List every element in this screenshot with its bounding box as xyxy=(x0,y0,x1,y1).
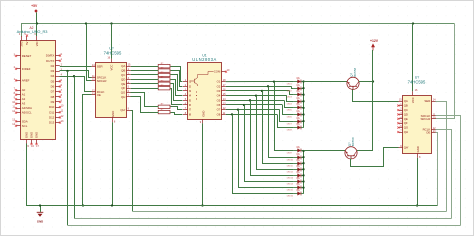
svg-text:QA: QA xyxy=(404,99,408,103)
svg-text:LED15: LED15 xyxy=(287,189,294,191)
LED LED11 xyxy=(287,160,304,168)
svg-text:VIN: VIN xyxy=(35,42,39,47)
svg-text:QD: QD xyxy=(404,112,408,116)
wire ground rail xyxy=(27,205,438,207)
wire +5V rail xyxy=(22,24,455,37)
svg-text:LED1: LED1 xyxy=(287,83,293,85)
svg-text:16: 16 xyxy=(107,56,110,59)
junction bank2 bus row5 xyxy=(302,174,304,176)
wire clock bus line xyxy=(74,218,452,220)
wire O7 jog to LED bank1 row7 xyxy=(280,110,294,122)
svg-text:GND: GND xyxy=(34,132,38,138)
svg-text:6: 6 xyxy=(61,84,63,87)
junction bank2 bus row2 xyxy=(302,156,304,158)
svg-text:QG: QG xyxy=(121,91,126,95)
svg-text:7: 7 xyxy=(128,95,130,98)
LED LED7 xyxy=(287,118,304,126)
wire O2 towards LEDs xyxy=(226,86,292,88)
wire QH'1 daisy chain down xyxy=(131,111,133,212)
transistor Q1 BC558 xyxy=(347,67,359,89)
svg-text:13: 13 xyxy=(223,103,226,106)
svg-text:2: 2 xyxy=(14,66,16,69)
wire D2 to SER1 xyxy=(60,66,92,68)
wire O8 branch to LED bank2 row8 xyxy=(233,115,294,194)
svg-text:O1: O1 xyxy=(217,80,221,84)
LED LED14 xyxy=(287,178,304,186)
svg-text:SDA: SDA xyxy=(22,119,28,123)
svg-text:LED12: LED12 xyxy=(287,171,294,173)
wire O6 towards LEDs xyxy=(226,104,282,106)
junction bank2 bus row1 xyxy=(302,150,304,152)
wire +5V to 74HC595#2 SRCLR xyxy=(436,24,455,119)
svg-text:GND: GND xyxy=(37,219,43,223)
svg-text:13: 13 xyxy=(92,93,95,96)
junction bank2 bus row6 xyxy=(302,180,304,182)
svg-text:GND: GND xyxy=(24,132,28,138)
svg-text:3V3: 3V3 xyxy=(19,41,23,46)
svg-text:QH': QH' xyxy=(120,108,125,112)
svg-text:D6: D6 xyxy=(51,85,55,89)
svg-text:SRCLR: SRCLR xyxy=(420,117,430,121)
LED LED5 xyxy=(287,104,304,112)
wire Q2 emitter to +12V line xyxy=(357,150,373,152)
wire O3 towards LEDs xyxy=(226,90,289,92)
junction bank1 bus row6 xyxy=(302,113,304,115)
wire Q1 base to U3 QA xyxy=(353,90,399,102)
svg-text:D2: D2 xyxy=(51,64,55,68)
wire OE2 to ground rail xyxy=(436,133,438,206)
svg-text:9: 9 xyxy=(128,108,130,111)
LED LED3 xyxy=(287,91,304,99)
LED LED15 xyxy=(287,184,304,192)
svg-text:BC558: BC558 xyxy=(351,137,355,146)
svg-text:COM: COM xyxy=(214,70,221,74)
junction bank1 bus row5 xyxy=(302,107,304,109)
svg-text:74HC595: 74HC595 xyxy=(104,50,122,55)
svg-text:O5: O5 xyxy=(217,98,221,102)
IC U? 74HC595 second shift register xyxy=(397,76,436,159)
svg-text:VCC: VCC xyxy=(110,65,114,71)
svg-text:2: 2 xyxy=(400,108,402,111)
svg-text:IOREF: IOREF xyxy=(22,67,31,71)
wire +12V vertical xyxy=(372,50,374,151)
svg-text:9: 9 xyxy=(14,97,16,100)
wire R6 to ULN input I6 xyxy=(171,89,183,105)
junction +12V at Q1 xyxy=(372,80,374,82)
svg-text:QH': QH' xyxy=(404,146,409,150)
junction bank1 bus row3 xyxy=(302,94,304,96)
svg-text:QE: QE xyxy=(121,82,125,86)
svg-text:D12: D12 xyxy=(49,115,55,119)
wire O7 branch to LED bank2 row7 xyxy=(239,110,294,188)
svg-text:D10: D10 xyxy=(49,105,55,109)
LED LED8 xyxy=(287,124,304,132)
wire OE1 to ground xyxy=(83,95,92,206)
svg-text:5: 5 xyxy=(61,79,63,82)
wire R2 to ULN input I2 xyxy=(171,71,183,87)
svg-text:QA: QA xyxy=(121,64,125,68)
wire SRCLK2 down xyxy=(436,116,461,226)
svg-text:D1/TX: D1/TX xyxy=(46,59,54,63)
svg-text:4: 4 xyxy=(400,116,402,119)
svg-text:LED16: LED16 xyxy=(287,195,294,197)
svg-text:9: 9 xyxy=(200,121,202,124)
svg-text:LED5: LED5 xyxy=(287,109,293,111)
wire R8 to ULN input I8 xyxy=(171,113,183,115)
junction +5V at U3 VCC xyxy=(412,22,414,24)
svg-text:Arduino_UNO_R3: Arduino_UNO_R3 xyxy=(17,29,48,34)
svg-text:A1: A1 xyxy=(22,93,26,97)
svg-text:13: 13 xyxy=(61,120,64,123)
svg-text:GND: GND xyxy=(201,111,205,117)
svg-text:A0: A0 xyxy=(22,88,26,92)
svg-text:QH: QH xyxy=(404,130,408,134)
wire +5V to Arduino 5V pin xyxy=(36,24,38,37)
svg-text:LED6: LED6 xyxy=(287,116,293,118)
wire 74HC595#1 GND to ground rail xyxy=(112,122,114,205)
svg-text:ULN2803A: ULN2803A xyxy=(192,57,217,62)
LED LED13 xyxy=(287,172,304,180)
wire O5 branch to LED bank2 row5 xyxy=(251,101,294,176)
svg-text:+12V: +12V xyxy=(370,39,379,43)
svg-text:AREF: AREF xyxy=(22,78,30,82)
svg-text:LED9: LED9 xyxy=(287,152,293,154)
junction O8 branch to bank2 xyxy=(231,113,233,115)
svg-text:QC: QC xyxy=(121,73,125,77)
wire R3 to ULN input I3 xyxy=(171,75,183,91)
svg-text:7: 7 xyxy=(61,89,63,92)
svg-text:O4: O4 xyxy=(217,94,221,98)
wire O4 jog to LED bank1 row4 xyxy=(287,96,294,102)
svg-text:7: 7 xyxy=(400,130,402,133)
svg-text:11: 11 xyxy=(61,110,64,113)
svg-text:3: 3 xyxy=(14,53,16,56)
wire +5V to 74HC595#1 VCC xyxy=(111,24,113,59)
resistors R1-R8 xyxy=(158,63,170,114)
svg-text:10: 10 xyxy=(227,69,230,72)
svg-text:LED10: LED10 xyxy=(287,159,294,161)
wire O2 jog to LED bank1 row2 xyxy=(292,87,294,89)
IC U1 ULN2803A darlington array xyxy=(183,54,230,125)
junction +5V at U1 VCC xyxy=(110,22,112,24)
svg-text:D4: D4 xyxy=(51,74,55,78)
IC A2 Arduino_UNO_R3 xyxy=(12,26,64,148)
wire R5 to ULN input I5 xyxy=(171,84,183,101)
junction O4 branch to bank2 xyxy=(255,94,257,96)
svg-text:LED3: LED3 xyxy=(287,96,293,98)
wire O8 jog to LED bank1 row8 xyxy=(278,115,294,128)
svg-text:16: 16 xyxy=(223,88,226,91)
svg-text:D5: D5 xyxy=(51,79,55,83)
LED LED10 xyxy=(287,154,304,162)
wire bank2 bus to Q2 collector xyxy=(304,150,346,152)
svg-text:QE: QE xyxy=(404,117,408,121)
power symbol +12V xyxy=(370,39,379,51)
svg-text:D9: D9 xyxy=(51,100,55,104)
wire O3 branch to LED bank2 row3 xyxy=(263,91,294,164)
power symbol +5V xyxy=(31,4,38,24)
svg-text:D8: D8 xyxy=(51,95,55,99)
svg-text:A2: A2 xyxy=(22,97,26,101)
wire QF1 to resistor R6 xyxy=(131,88,158,90)
svg-text:D11: D11 xyxy=(49,110,54,114)
svg-text:5V: 5V xyxy=(25,41,29,45)
svg-text:OE: OE xyxy=(97,93,101,97)
svg-text:QD: QD xyxy=(121,77,125,81)
LED LED4 xyxy=(287,98,304,106)
wire D3 branch down-left xyxy=(67,71,69,225)
svg-text:7: 7 xyxy=(14,88,16,91)
LED LED1 xyxy=(287,78,304,86)
wire QB1 to resistor R2 xyxy=(131,70,158,72)
wire O5 jog to LED bank1 row5 xyxy=(285,101,294,108)
svg-text:LED7: LED7 xyxy=(287,123,293,125)
ground symbol GND xyxy=(37,206,44,224)
svg-text:QH: QH xyxy=(121,95,125,99)
junction O1 branch to bank2 xyxy=(273,80,275,82)
svg-text:O7: O7 xyxy=(217,108,221,112)
junction bank1 bus row4 xyxy=(302,100,304,102)
svg-text:O8: O8 xyxy=(217,112,221,116)
wire O1 branch to LED bank2 row1 xyxy=(275,82,294,151)
svg-text:16: 16 xyxy=(415,89,418,92)
svg-text:O3: O3 xyxy=(217,89,221,93)
wire QE1 to resistor R5 xyxy=(131,83,158,85)
svg-text:RESET: RESET xyxy=(22,54,32,58)
svg-text:1: 1 xyxy=(61,58,63,61)
svg-text:QB: QB xyxy=(121,69,125,73)
wire O7 towards LEDs xyxy=(226,109,280,111)
wire D4 branch down-left xyxy=(74,76,76,219)
svg-text:QB: QB xyxy=(404,104,408,108)
svg-text:GND: GND xyxy=(111,111,115,117)
svg-text:OE: OE xyxy=(426,130,430,134)
wire QA1 to resistor R1 xyxy=(131,66,158,68)
junction GND symbol on rail xyxy=(39,204,41,206)
junction +5V at Arduino 5V xyxy=(36,22,38,24)
svg-text:LED8: LED8 xyxy=(287,129,293,131)
svg-text:SER: SER xyxy=(424,99,430,103)
wire O8 towards LEDs xyxy=(226,114,277,116)
wire ULN GND to ground rail xyxy=(202,123,204,205)
wire O5 towards LEDs xyxy=(226,100,285,102)
wire QG1 to resistor R7 xyxy=(131,93,159,107)
wire +5V to 74HC595#1 SRCLR xyxy=(87,24,92,81)
wire O4 branch to LED bank2 row4 xyxy=(257,96,294,170)
svg-text:QF: QF xyxy=(404,121,408,125)
svg-text:A3: A3 xyxy=(22,102,26,106)
wire O3 jog to LED bank1 row3 xyxy=(290,91,294,95)
svg-text:SER: SER xyxy=(97,64,103,68)
wire latch bus line xyxy=(68,225,461,227)
svg-text:+5V: +5V xyxy=(31,4,38,8)
svg-text:SCL: SCL xyxy=(22,124,28,128)
junction O6 branch to bank2 xyxy=(243,104,245,106)
junction ULN GND on ground rail xyxy=(201,204,203,206)
svg-text:QF: QF xyxy=(121,86,125,90)
junction bank2 bus row3 xyxy=(302,162,304,164)
wire O4 towards LEDs xyxy=(226,95,287,97)
wire O2 branch to LED bank2 row2 xyxy=(269,87,294,158)
junction O5 branch to bank2 xyxy=(249,99,251,101)
LED LED2 xyxy=(287,85,304,93)
svg-text:12: 12 xyxy=(61,115,64,118)
svg-text:LED2: LED2 xyxy=(287,90,293,92)
junction O3 branch to bank2 xyxy=(261,90,263,92)
wire D4 to RCLK1 xyxy=(60,77,92,92)
svg-text:8: 8 xyxy=(14,92,16,95)
wire 74HC595#2 GND to ground rail xyxy=(417,158,419,206)
svg-text:O6: O6 xyxy=(217,103,221,107)
wire Q2 base run xyxy=(351,148,399,167)
LED LED6 xyxy=(287,111,304,119)
junction D3 branch xyxy=(66,70,68,72)
svg-text:8: 8 xyxy=(61,94,63,97)
wire LED bank1 anode bus xyxy=(303,82,305,128)
wire D3 to SRCLK1 xyxy=(60,71,92,78)
svg-text:6: 6 xyxy=(185,103,187,106)
junction OE1 on ground rail xyxy=(82,204,84,206)
wire RCLK2 down xyxy=(436,130,452,219)
svg-text:2: 2 xyxy=(128,73,130,76)
junction O2 branch to bank2 xyxy=(267,85,269,87)
svg-text:D13: D13 xyxy=(49,121,55,125)
svg-text:8: 8 xyxy=(419,156,421,159)
wire O1 to LED bank1 row1 xyxy=(226,81,294,83)
svg-text:74HC595: 74HC595 xyxy=(408,79,426,84)
svg-text:D3: D3 xyxy=(51,69,55,73)
svg-text:QC: QC xyxy=(404,108,408,112)
wire SER2 to serial line xyxy=(436,102,447,212)
svg-text:GND: GND xyxy=(416,146,420,152)
junction bank1 bus row1 xyxy=(302,80,304,82)
svg-text:SRCLR: SRCLR xyxy=(97,79,107,83)
svg-text:1: 1 xyxy=(14,78,16,81)
wire serial bus line xyxy=(133,211,447,213)
junction bank1 bus row7 xyxy=(302,120,304,122)
wire Q1 emitter to +12V line xyxy=(359,81,373,83)
junction 74HC595#1 GND on rail xyxy=(111,204,113,206)
svg-text:LED4: LED4 xyxy=(287,103,293,105)
svg-text:D0/RX: D0/RX xyxy=(46,54,55,58)
svg-text:A5/SCL: A5/SCL xyxy=(22,111,32,115)
junction +5V at SRCLR1 drop xyxy=(85,22,87,24)
svg-text:D7: D7 xyxy=(51,90,55,94)
junction 74HC595#2 GND on rail xyxy=(416,204,418,206)
junction bank2 bus row4 xyxy=(302,168,304,170)
svg-text:A4/SDA: A4/SDA xyxy=(22,106,32,110)
wire bank1 bus to Q1 collector xyxy=(304,81,348,83)
LED LED9 xyxy=(287,147,304,155)
LED LED12 xyxy=(287,166,304,174)
svg-text:O2: O2 xyxy=(217,84,221,88)
wire R4 to ULN input I4 xyxy=(171,80,183,96)
svg-text:17: 17 xyxy=(36,145,39,148)
wire O6 branch to LED bank2 row6 xyxy=(245,105,294,182)
svg-text:BC558: BC558 xyxy=(353,67,357,76)
svg-text:LED13: LED13 xyxy=(287,177,294,179)
IC U? 74HC595 first shift register xyxy=(91,47,131,124)
wire LED bank2 anode bus xyxy=(303,151,305,194)
wire R1 to ULN input I1 xyxy=(171,67,183,82)
svg-text:LED11: LED11 xyxy=(287,165,294,167)
junction bank1 bus row2 xyxy=(302,87,304,89)
transistor Q2 BC558 xyxy=(345,137,357,159)
junction O7 branch to bank2 xyxy=(237,109,239,111)
svg-text:VCC: VCC xyxy=(411,97,415,103)
svg-text:10: 10 xyxy=(61,105,64,108)
svg-text:3: 3 xyxy=(185,88,187,91)
svg-text:GND: GND xyxy=(29,132,33,138)
LED LED16 xyxy=(287,190,304,198)
svg-text:8: 8 xyxy=(114,120,116,123)
wire QD1 to resistor R4 xyxy=(131,79,158,81)
wire QC1 to resistor R3 xyxy=(131,74,158,76)
svg-text:QG: QG xyxy=(404,126,409,130)
svg-text:16: 16 xyxy=(31,145,34,148)
wire O6 jog to LED bank1 row6 xyxy=(283,105,294,115)
junction D4 branch xyxy=(73,75,75,77)
wire QH1 to resistor R8 xyxy=(131,97,159,113)
svg-text:LED14: LED14 xyxy=(287,183,294,185)
junction bank2 bus row7 xyxy=(302,186,304,188)
svg-text:10: 10 xyxy=(92,78,95,81)
wire Arduino GND to ground rail xyxy=(27,144,41,206)
wire +5V to 74HC595#2 VCC xyxy=(412,24,414,92)
wire R7 to ULN input I7 xyxy=(171,107,183,110)
